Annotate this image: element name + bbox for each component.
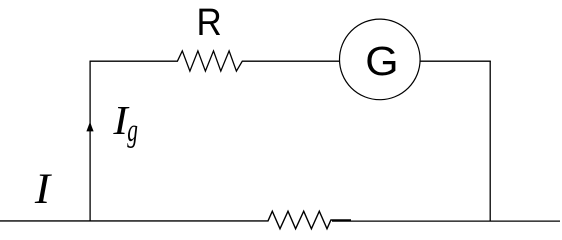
svg-text:G: G [365, 38, 398, 84]
svg-text:g: g [127, 113, 138, 148]
svg-text:I: I [34, 164, 52, 213]
svg-text:R: R [197, 1, 222, 43]
